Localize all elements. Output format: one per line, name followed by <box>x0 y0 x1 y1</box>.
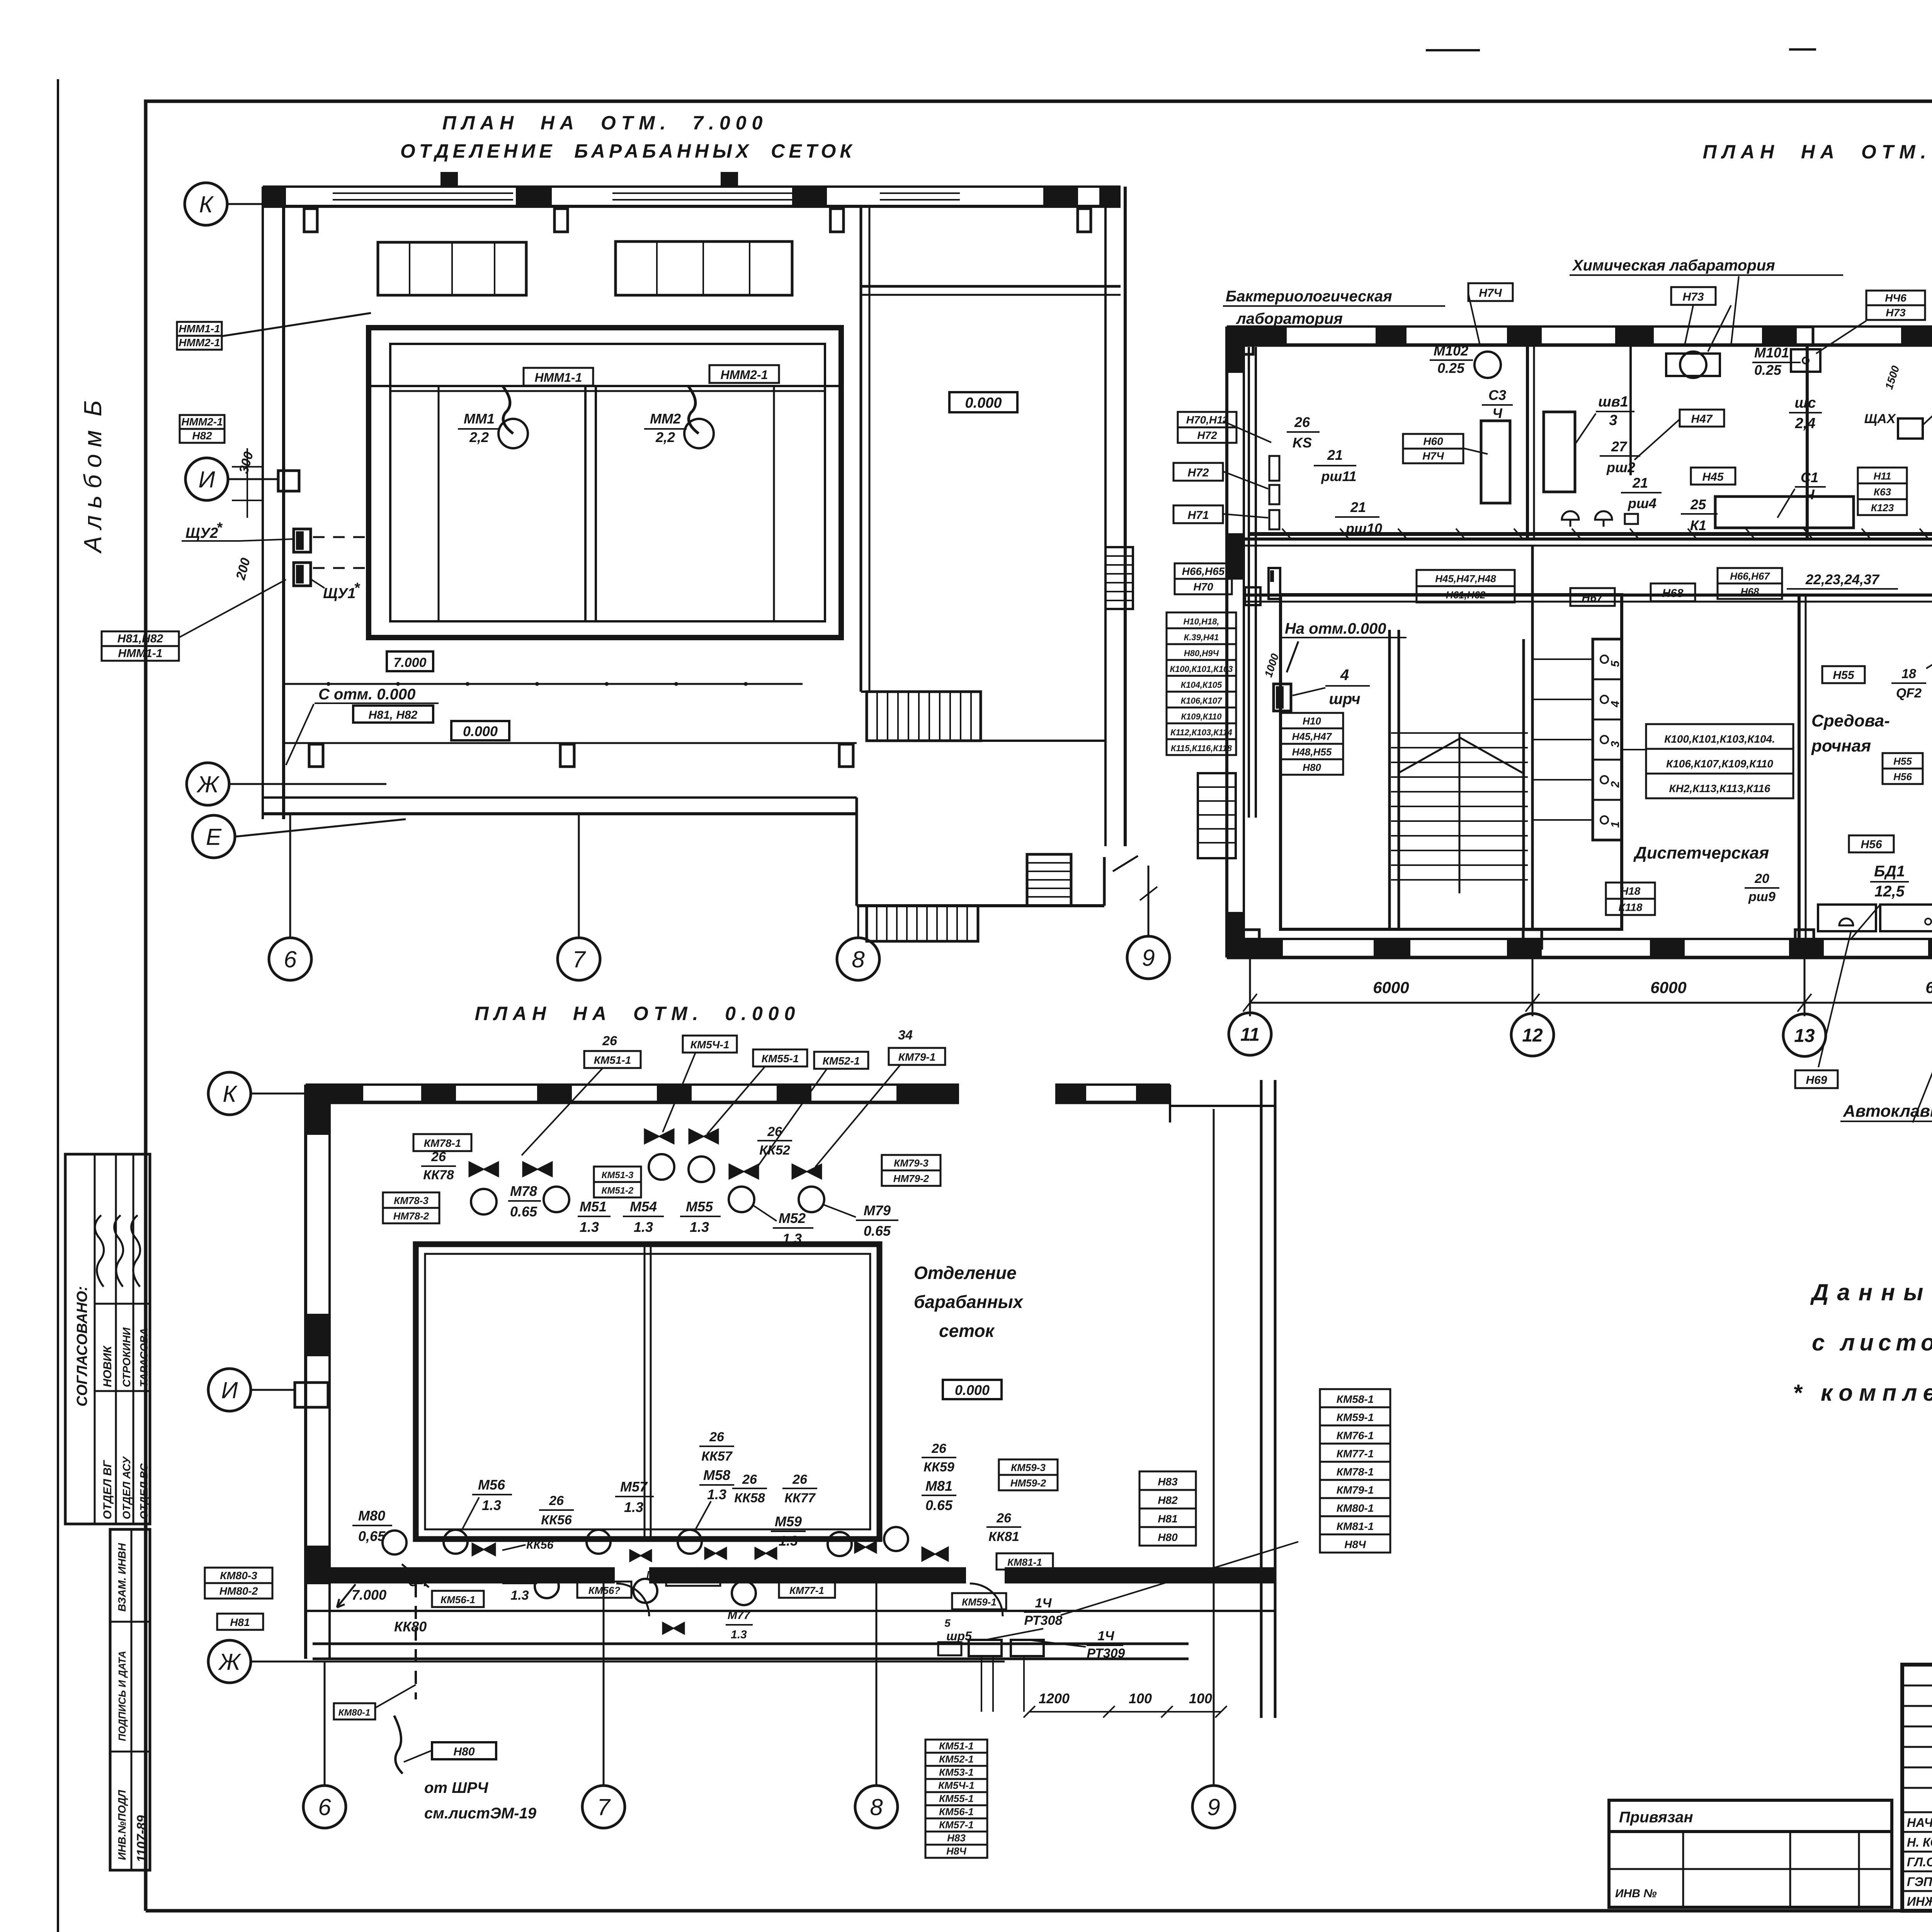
svg-text:НММ2-1: НММ2-1 <box>181 416 223 428</box>
svg-text:Н72: Н72 <box>1187 466 1209 479</box>
svg-text:Н8Ч: Н8Ч <box>1344 1538 1366 1550</box>
svg-text:КМ55-1: КМ55-1 <box>939 1793 974 1804</box>
axis circle 11 <box>1229 1013 1271 1055</box>
plan7 right room left wall <box>860 206 862 692</box>
svg-text:7.000: 7.000 <box>393 655 426 670</box>
svg-text:Н45: Н45 <box>1702 471 1724 483</box>
svg-text:0.25: 0.25 <box>1754 362 1782 378</box>
svg-text:6000: 6000 <box>1925 978 1932 997</box>
top margin dash 1 <box>1426 49 1480 51</box>
svg-text:26: 26 <box>602 1034 617 1048</box>
label Н66,Н67 Н68 box <box>1718 568 1782 583</box>
label Н69 box <box>1795 1070 1838 1088</box>
leader M101 <box>1708 305 1731 352</box>
svg-text:12: 12 <box>1522 1025 1543 1046</box>
svg-text:Н. КОНТР: Н. КОНТР <box>1907 1835 1932 1849</box>
svg-text:0.000: 0.000 <box>965 395 1002 411</box>
svg-text:К123: К123 <box>1871 502 1894 514</box>
plan7 bottom-left wall <box>263 796 857 799</box>
svg-text:2,2: 2,2 <box>655 429 675 445</box>
svg-text:Н55: Н55 <box>1833 669 1854 682</box>
svg-text:ЩАХ: ЩАХ <box>1864 412 1896 426</box>
plan7 right wall <box>1104 187 1107 846</box>
svg-text:КК56: КК56 <box>541 1513 572 1527</box>
svg-text:3: 3 <box>1609 412 1617 429</box>
svg-text:КМ58-?: КМ58-? <box>675 1573 711 1584</box>
svg-text:26: 26 <box>549 1493 564 1508</box>
svg-text:Е: Е <box>206 824 222 850</box>
label Н11 К63 К123 box <box>1858 468 1907 483</box>
svg-text:рш11: рш11 <box>1321 468 1356 484</box>
svg-text:Н71: Н71 <box>1187 509 1209 522</box>
svg-text:Н55: Н55 <box>1893 755 1912 767</box>
sheet outer left edge line <box>57 79 59 1932</box>
label КМ80-3 НМ80-2 box <box>205 1568 272 1583</box>
riser feed lines <box>1532 658 1593 660</box>
svg-text:ОТДЕЛ АСУ: ОТДЕЛ АСУ <box>121 1456 133 1519</box>
lab bench chem <box>1715 497 1854 528</box>
svg-text:КМ52-1: КМ52-1 <box>939 1753 974 1765</box>
svg-text:25: 25 <box>1690 497 1706 512</box>
riser cells <box>1593 639 1622 840</box>
title block small rows <box>1902 1685 1932 1687</box>
valve KK54 <box>645 1129 674 1144</box>
svg-text:КМ53-1: КМ53-1 <box>939 1767 974 1778</box>
motor M80 <box>383 1531 406 1554</box>
svg-text:7: 7 <box>597 1794 611 1820</box>
svg-text:КМ80-1: КМ80-1 <box>1337 1502 1374 1514</box>
svg-text:КМ81-1: КМ81-1 <box>1337 1520 1374 1532</box>
plan7 left wall <box>262 187 264 819</box>
label Н55 Н56 box <box>1883 753 1923 769</box>
svg-text:Н60: Н60 <box>1423 435 1443 447</box>
svg-text:ОТДЕЛ ВГ: ОТДЕЛ ВГ <box>101 1460 114 1519</box>
svg-text:НМ78-2: НМ78-2 <box>393 1210 429 1222</box>
svg-text:Н45,Н47,Н48: Н45,Н47,Н48 <box>1435 573 1496 585</box>
svg-text:1: 1 <box>1609 821 1622 828</box>
motor M101 <box>1680 352 1706 378</box>
label Н71 box <box>1173 505 1223 523</box>
svg-text:А л ь б о м Б: А л ь б о м Б <box>79 400 107 554</box>
svg-text:рш2: рш2 <box>1606 459 1635 475</box>
leader autoclave <box>1818 932 1851 1067</box>
approval signatures <box>95 1215 140 1287</box>
svg-text:К112,К103,К114: К112,К103,К114 <box>1170 728 1232 737</box>
label КМ59-3 НМ59-2 box <box>999 1459 1058 1475</box>
svg-text:КК77: КК77 <box>784 1491 816 1505</box>
motor M52 <box>729 1187 754 1212</box>
axis circle 13 <box>1783 1014 1826 1056</box>
plan7 small stair mid-right <box>1027 854 1071 906</box>
plan42 corridor south wall left <box>1244 594 1932 597</box>
svg-text:Ч: Ч <box>1804 486 1815 502</box>
svg-text:ИНВ.№ПОДЛ: ИНВ.№ПОДЛ <box>116 1790 128 1860</box>
svg-text:НММ1-1: НММ1-1 <box>179 323 220 335</box>
svg-text:НАЧ. ОТД: НАЧ. ОТД <box>1907 1816 1932 1830</box>
svg-text:QF2: QF2 <box>1896 686 1922 701</box>
plan7 bottom annex line <box>284 742 857 744</box>
ШРУ cabinet <box>1274 684 1291 711</box>
svg-text:КМ51-1: КМ51-1 <box>939 1740 974 1752</box>
svg-text:1Ч: 1Ч <box>1035 1596 1052 1611</box>
leader from wall to note <box>286 704 314 765</box>
svg-text:ВЗАМ. ИНВН: ВЗАМ. ИНВН <box>116 1543 128 1612</box>
motor M54 <box>649 1154 674 1180</box>
svg-text:Н66,Н65: Н66,Н65 <box>1182 565 1225 577</box>
plan42 corridor north wall <box>1244 537 1932 541</box>
svg-text:ТАРАСОВА: ТАРАСОВА <box>138 1328 150 1387</box>
svg-text:0,65: 0,65 <box>358 1528 386 1544</box>
plan42 top wall <box>1227 325 1932 328</box>
label КМ54-1 box above <box>683 1036 737 1053</box>
svg-text:КК59: КК59 <box>923 1460 954 1475</box>
svg-text:КМ80-3: КМ80-3 <box>220 1570 257 1582</box>
privyazan table <box>1609 1832 1892 1907</box>
svg-text:ГЛ.СПЕЦ: ГЛ.СПЕЦ <box>1907 1855 1932 1869</box>
svg-text:Н81: Н81 <box>1158 1513 1177 1525</box>
svg-text:2,4: 2,4 <box>1795 415 1816 432</box>
svg-text:ММ2: ММ2 <box>650 411 681 427</box>
device щ1 <box>1269 568 1280 599</box>
privyazan box <box>1609 1800 1892 1832</box>
svg-text:18: 18 <box>1901 667 1916 681</box>
label НММ2-1 on strip <box>709 365 779 383</box>
cabinet ШВ1 <box>1544 412 1575 492</box>
svg-text:СТРОКИНИ: СТРОКИНИ <box>121 1327 133 1387</box>
svg-text:4: 4 <box>1340 667 1349 684</box>
lamps chem lab <box>1562 511 1579 520</box>
corridor label boxes <box>1417 570 1515 586</box>
label КМ80-1 box <box>334 1703 375 1719</box>
label Н74 box <box>1468 283 1513 301</box>
label КМ81-1 box <box>997 1553 1053 1570</box>
label Н45 box <box>1691 468 1735 485</box>
svg-text:100: 100 <box>1129 1690 1152 1706</box>
plan0 lowest wall strip <box>313 1643 1189 1645</box>
svg-text:1.3: 1.3 <box>731 1628 747 1641</box>
svg-text:И: И <box>221 1378 238 1403</box>
svg-text:*: * <box>354 580 361 596</box>
svg-text:0.000: 0.000 <box>955 1382 990 1398</box>
svg-text:2,2: 2,2 <box>469 429 489 445</box>
plan7 vent rect 2 <box>616 241 792 295</box>
svg-text:НММ1-1: НММ1-1 <box>118 647 162 660</box>
cabinet ЩУ1 <box>294 563 311 586</box>
svg-text:НММ1-1: НММ1-1 <box>535 371 582 384</box>
svg-text:9: 9 <box>1142 945 1155 971</box>
floor box 0.000 plan0 <box>943 1380 1002 1399</box>
svg-text:1.3: 1.3 <box>634 1219 653 1235</box>
svg-text:К106,К107: К106,К107 <box>1181 696 1223 706</box>
svg-text:8: 8 <box>852 947 865 973</box>
label КМ59-1 box <box>952 1593 1006 1609</box>
svg-text:ПЛАН НА ОТМ. 4.200: ПЛАН НА ОТМ. 4.200 <box>1703 141 1932 163</box>
svg-text:М77: М77 <box>728 1609 751 1622</box>
svg-text:НММ2-1: НММ2-1 <box>179 337 220 349</box>
svg-text:ОТДЕЛЕНИЕ БАРАБАННЫХ СЕТОК: ОТДЕЛЕНИЕ БАРАБАННЫХ СЕТОК <box>400 140 855 162</box>
floor mark box 0.000 lower <box>451 721 509 740</box>
svg-text:рш4: рш4 <box>1628 495 1656 511</box>
leader top H74 <box>1468 294 1480 345</box>
stairwell outer <box>1281 595 1622 929</box>
plan7 И axis niche <box>278 471 299 491</box>
svg-text:ИНВ №: ИНВ № <box>1615 1887 1657 1900</box>
svg-text:Н11: Н11 <box>1874 470 1891 482</box>
svg-text:26: 26 <box>709 1430 724 1444</box>
svg-text:1.3: 1.3 <box>779 1533 798 1549</box>
drum basin inner <box>425 1254 870 1529</box>
svg-text:КМ51-2: КМ51-2 <box>602 1185 634 1196</box>
svg-text:ПОДПИСЬ И ДАТА: ПОДПИСЬ И ДАТА <box>116 1651 128 1741</box>
svg-text:26: 26 <box>767 1124 782 1139</box>
plan7 vent rect 1 <box>378 242 526 295</box>
svg-text:К109,К110: К109,К110 <box>1181 712 1222 721</box>
svg-text:от ШРЧ: от ШРЧ <box>424 1779 488 1796</box>
axis circle 9 plan0 <box>1192 1786 1235 1828</box>
svg-text:ИНЖ П К: ИНЖ П К <box>1907 1895 1932 1908</box>
svg-text:М101: М101 <box>1754 345 1789 361</box>
motor M57 <box>587 1530 611 1554</box>
label Н47 box <box>1680 410 1724 427</box>
motor M81 <box>884 1527 908 1551</box>
label Н73 box <box>1671 287 1716 305</box>
svg-text:Н56: Н56 <box>1893 771 1912 782</box>
svg-text:ЩУ1: ЩУ1 <box>323 585 355 602</box>
label КМ51-3 КМ51-2 box <box>594 1167 641 1182</box>
svg-text:21: 21 <box>1327 447 1343 463</box>
valve KK56 <box>472 1543 495 1556</box>
svg-text:КМ52-1: КМ52-1 <box>823 1055 860 1067</box>
svg-text:Н56: Н56 <box>1861 838 1882 851</box>
svg-text:ГЭП: ГЭП <box>1907 1875 1932 1889</box>
svg-text:1Ч: 1Ч <box>1098 1629 1115 1643</box>
valve row2 <box>523 1162 552 1177</box>
svg-text:КМ80-1: КМ80-1 <box>338 1708 371 1718</box>
label КМ77-1 box <box>779 1582 835 1598</box>
svg-text:22,23,24,37: 22,23,24,37 <box>1805 571 1880 587</box>
svg-text:НММ2-1: НММ2-1 <box>721 368 768 382</box>
top margin dash 2 <box>1789 48 1816 51</box>
plan7 right wall stair <box>1105 547 1133 609</box>
svg-text:Н82: Н82 <box>1158 1494 1178 1506</box>
floor mark box 7.000 <box>387 651 433 671</box>
axis circle 8 plan0 <box>855 1786 898 1828</box>
svg-text:КК78: КК78 <box>423 1168 454 1182</box>
svg-text:КМ51-1: КМ51-1 <box>594 1054 631 1066</box>
svg-text:Ж: Ж <box>196 772 219 798</box>
title block outline <box>1902 1665 1932 1911</box>
svg-text:К115,К116,К118: К115,К116,К118 <box>1171 743 1232 753</box>
svg-text:KS: KS <box>1293 435 1312 451</box>
svg-text:С3: С3 <box>1488 387 1506 403</box>
svg-text:М79: М79 <box>864 1202 891 1218</box>
svg-text:Н68: Н68 <box>1741 586 1759 597</box>
svg-text:21: 21 <box>1632 475 1648 491</box>
valve KK52a <box>729 1164 759 1179</box>
svg-text:С1: С1 <box>1801 469 1818 485</box>
svg-text:см.листЭМ-19: см.листЭМ-19 <box>424 1805 537 1822</box>
svg-text:1.3: 1.3 <box>580 1219 599 1235</box>
svg-text:Н80,Н9Ч: Н80,Н9Ч <box>1184 648 1219 658</box>
svg-text:Н68: Н68 <box>1662 587 1683 600</box>
svg-text:И: И <box>199 467 215 493</box>
motor MM2 <box>684 419 714 448</box>
left riser double line <box>1248 347 1250 818</box>
svg-text:К104,К105: К104,К105 <box>1181 680 1222 690</box>
svg-text:К1: К1 <box>1690 517 1706 533</box>
svg-text:1200: 1200 <box>1039 1690 1070 1706</box>
plan7 lower staircase <box>867 906 978 941</box>
svg-text:КМ56-1: КМ56-1 <box>440 1594 475 1605</box>
plan7 right room bottom line <box>861 690 981 693</box>
svg-text:КМ77-1: КМ77-1 <box>1337 1447 1374 1459</box>
stair treads <box>1391 732 1528 734</box>
label Н70,Н71 Н72 box <box>1178 412 1236 427</box>
upper room columns plan42 <box>1235 336 1253 354</box>
label Н56 box <box>1849 835 1894 852</box>
svg-text:Ж: Ж <box>218 1649 241 1675</box>
svg-text:М52: М52 <box>779 1210 806 1226</box>
svg-text:34: 34 <box>898 1028 913 1043</box>
label Н10 Н45 list <box>1281 713 1343 728</box>
grid circle И plan0 <box>208 1369 251 1411</box>
plan0 left wall <box>304 1085 307 1659</box>
svg-text:9: 9 <box>1207 1794 1220 1820</box>
axis circle 7 plan0 <box>582 1786 625 1828</box>
grid circle И plan7 <box>185 458 228 500</box>
axis 6 circle plan7 <box>269 938 311 980</box>
dim ticks near left wall <box>232 466 263 468</box>
plan7 bottom wall stubs <box>309 744 323 767</box>
valve KK81 <box>922 1547 948 1561</box>
label КМ58-2 box <box>666 1570 720 1586</box>
svg-text:ПЛАН НА ОТМ. 7.000: ПЛАН НА ОТМ. 7.000 <box>442 112 768 134</box>
svg-text:Н70,Н11: Н70,Н11 <box>1186 414 1228 426</box>
stamp side table <box>110 1529 150 1870</box>
svg-text:КК58: КК58 <box>734 1491 765 1505</box>
plan0 right wall <box>1260 1080 1263 1718</box>
svg-text:с листом ЭМ-18,19,22: с листом ЭМ-18,19,22 <box>1812 1330 1932 1355</box>
svg-text:26: 26 <box>931 1441 947 1456</box>
svg-text:КМ79-1: КМ79-1 <box>1337 1484 1374 1496</box>
plan0 top wall right piece <box>1055 1083 1170 1086</box>
svg-text:М78: М78 <box>510 1183 537 1199</box>
svg-text:7.000: 7.000 <box>352 1587 386 1603</box>
axis circle 12 <box>1511 1014 1554 1056</box>
lower partition x4656 <box>1798 595 1801 939</box>
plan7 window ticks above <box>440 172 458 187</box>
cabinet ЩУ2 <box>294 529 311 552</box>
svg-text:Автоклавная: Автоклавная <box>1843 1102 1932 1121</box>
svg-text:КМ79-3: КМ79-3 <box>894 1157 929 1169</box>
upper partition x4677 <box>1806 345 1809 539</box>
stair rails <box>1388 630 1391 929</box>
svg-text:КМ81-1: КМ81-1 <box>1007 1556 1042 1568</box>
plan0 left wall И notch <box>295 1383 328 1407</box>
label H81 H82 box <box>353 706 433 723</box>
plan7 upper staircase <box>867 692 981 741</box>
label Н46 Н73 box <box>1866 291 1925 305</box>
svg-text:НЧ6: НЧ6 <box>1885 292 1906 304</box>
svg-text:27: 27 <box>1611 439 1628 454</box>
svg-text:КМ59-1: КМ59-1 <box>1337 1411 1374 1423</box>
svg-text:рш10: рш10 <box>1345 520 1382 536</box>
big cable list box left <box>1167 612 1236 628</box>
motor M53 <box>633 1579 657 1603</box>
valve KK55 <box>689 1129 718 1144</box>
svg-text:К: К <box>223 1081 238 1107</box>
approval table <box>65 1154 150 1524</box>
motor M58 <box>678 1530 702 1554</box>
svg-text:КМ79-1: КМ79-1 <box>898 1051 936 1063</box>
svg-text:Н7Ч: Н7Ч <box>1422 450 1444 462</box>
svg-text:М59: М59 <box>775 1514 802 1529</box>
svg-text:Н81, Н82: Н81, Н82 <box>369 709 418 721</box>
svg-text:На отм.0.000: На отм.0.000 <box>1285 620 1386 637</box>
motor M77 <box>732 1581 756 1605</box>
plan7 column stubs top <box>304 209 317 232</box>
svg-text:Н10: Н10 <box>1303 715 1321 727</box>
svg-text:НОВИК: НОВИК <box>101 1345 114 1387</box>
drum basin outer <box>416 1244 879 1539</box>
svg-text:М80: М80 <box>358 1508 385 1524</box>
svg-text:К100,К101,К103,К104.: К100,К101,К103,К104. <box>1664 733 1775 745</box>
vertical leader lines РТ <box>981 1656 982 1712</box>
svg-text:*: * <box>216 520 223 536</box>
label Н68 box <box>1651 583 1695 601</box>
svg-text:Н73: Н73 <box>1886 307 1906 319</box>
svg-text:КК80: КК80 <box>394 1619 427 1634</box>
label КМ51-1 bottom stack <box>925 1740 987 1753</box>
svg-text:Н10,Н18,: Н10,Н18, <box>1184 617 1219 626</box>
svg-text:Н48,Н55: Н48,Н55 <box>1292 746 1332 758</box>
svg-text:М102: М102 <box>1434 343 1468 359</box>
svg-text:КМ57-1: КМ57-1 <box>939 1819 974 1831</box>
svg-text:Н82: Н82 <box>192 430 212 442</box>
svg-text:шв1: шв1 <box>1598 394 1628 410</box>
svg-text:100: 100 <box>1189 1690 1212 1706</box>
svg-text:ЩУ2: ЩУ2 <box>185 525 218 541</box>
svg-text:М81: М81 <box>925 1478 952 1494</box>
grid circle Е plan7 <box>192 815 235 858</box>
plan0 bottom outer line <box>306 1610 1275 1612</box>
svg-text:Привязан: Привязан <box>1619 1809 1693 1826</box>
label Н81,Н82 НММ1-1 <box>102 631 179 646</box>
svg-text:1.3: 1.3 <box>482 1497 501 1513</box>
svg-text:1.3: 1.3 <box>624 1499 643 1515</box>
svg-text:0.25: 0.25 <box>1437 360 1465 376</box>
svg-text:5: 5 <box>1609 660 1622 667</box>
svg-text:рш9: рш9 <box>1748 889 1776 904</box>
svg-text:барабанных: барабанных <box>914 1292 1024 1312</box>
motor M76 <box>535 1574 559 1598</box>
label КМ52-1 box above <box>814 1052 868 1069</box>
svg-text:К: К <box>199 192 214 218</box>
label Н83 Н82 Н81 Н80 stack <box>1139 1471 1196 1490</box>
svg-text:1.3: 1.3 <box>707 1486 726 1502</box>
svg-text:СОГЛАСОВАНО:: СОГЛАСОВАНО: <box>74 1286 90 1406</box>
svg-text:Н80: Н80 <box>453 1745 474 1758</box>
drum room top strip lines <box>369 385 841 387</box>
svg-text:Н8Ч: Н8Ч <box>946 1845 966 1857</box>
label НММ2-1 Н82 <box>180 415 224 429</box>
svg-text:КМ55-1: КМ55-1 <box>762 1053 799 1065</box>
svg-text:КМ56-1: КМ56-1 <box>939 1806 974 1818</box>
svg-text:0.65: 0.65 <box>925 1497 953 1513</box>
svg-text:КМ78-1: КМ78-1 <box>1337 1466 1374 1478</box>
label НММ1-1 НММ2-1 upper-left <box>177 322 222 336</box>
svg-text:КК56: КК56 <box>526 1539 554 1551</box>
